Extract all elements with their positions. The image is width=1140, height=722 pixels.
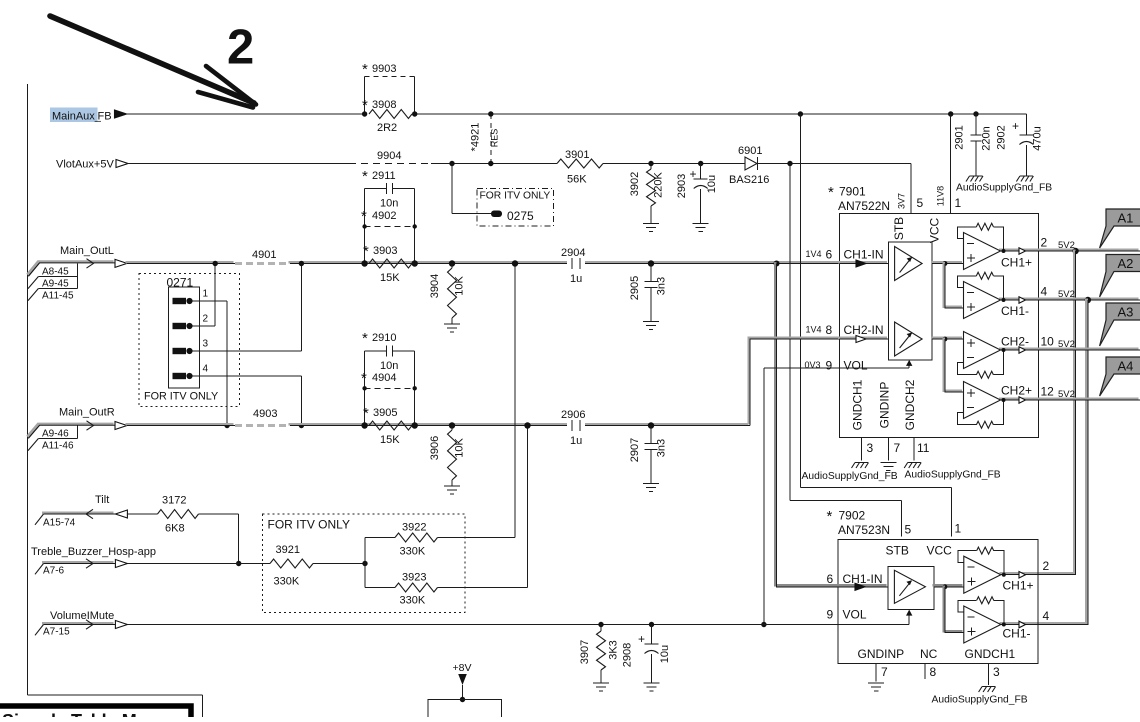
- svg-text:A9-46: A9-46: [42, 429, 69, 440]
- resistor R3907 3K3: [579, 622, 620, 683]
- svg-text:*: *: [827, 508, 833, 525]
- wire VolumeIMute to 7901 VOL: [761, 368, 839, 627]
- svg-text:NC: NC: [920, 647, 938, 661]
- capacitor C2902 470u (electrolytic): [996, 114, 1044, 176]
- block box (bottom, clipped): [428, 700, 502, 722]
- arrow Main_OutL: [115, 259, 127, 267]
- svg-text:3906: 3906: [429, 436, 441, 460]
- wire 7901 CH1+ output pin 2: [1001, 236, 1075, 270]
- op-amp U7901 output amp CH1-: [958, 272, 1006, 318]
- svg-text:10n: 10n: [380, 360, 398, 372]
- wire 0271 pin2 to Main_OutL: [199, 261, 218, 326]
- ground (2903): [693, 224, 709, 232]
- svg-text:*: *: [363, 243, 369, 260]
- svg-text:8: 8: [930, 665, 937, 679]
- svg-text:Tilt: Tilt: [95, 494, 109, 506]
- svg-text:4901: 4901: [252, 249, 276, 261]
- svg-text:*: *: [361, 370, 367, 387]
- jumper 0275 (FOR ITV ONLY box): [477, 189, 554, 227]
- svg-text:FOR ITV ONLY: FOR ITV ONLY: [268, 518, 350, 532]
- svg-text:8: 8: [826, 323, 833, 337]
- svg-text:STB: STB: [892, 217, 906, 240]
- svg-text:MainAux_: MainAux_: [52, 111, 102, 123]
- svg-text:4904: 4904: [372, 372, 396, 384]
- svg-text:A9-45: A9-45: [42, 279, 69, 290]
- resistor R3905 15K: [361, 405, 418, 446]
- svg-text:2904: 2904: [561, 247, 585, 259]
- svg-text:2903: 2903: [676, 174, 688, 198]
- wire VolumeIMute stub: [42, 622, 114, 625]
- svg-text:RES: RES: [490, 129, 500, 148]
- IC 7902 pin 6 CH1-IN: [827, 572, 888, 590]
- resistor R3923 330K: [365, 564, 528, 607]
- svg-text:A2: A2: [1118, 256, 1134, 271]
- svg-text:AudioSupplyGnd_FB: AudioSupplyGnd_FB: [956, 183, 1052, 194]
- svg-text:9: 9: [826, 359, 833, 373]
- svg-text:6: 6: [826, 248, 833, 262]
- svg-text:VCC: VCC: [928, 218, 942, 244]
- resistor R3172 6K8: [158, 495, 199, 535]
- ground AudioSupplyGnd_FB (2902): [1016, 176, 1033, 182]
- IC 7901 preamp CH1: [895, 247, 923, 281]
- ground AudioSupplyGnd_FB (7901 GNDCH2): [904, 463, 1001, 481]
- svg-text:5V2: 5V2: [1058, 389, 1075, 400]
- svg-text:+8V: +8V: [453, 662, 472, 674]
- svg-text:1: 1: [955, 196, 962, 210]
- svg-text:*: *: [828, 184, 834, 201]
- svg-text:5V2: 5V2: [1058, 240, 1075, 251]
- tag A1: [1100, 209, 1140, 248]
- arrow Main_OutR: [115, 422, 127, 430]
- chevron Main_OutL: [87, 259, 94, 268]
- svg-text:3923: 3923: [402, 572, 426, 584]
- svg-text:10u: 10u: [659, 645, 671, 663]
- svg-text:7: 7: [894, 441, 901, 455]
- signals table box (clipped): [0, 706, 191, 722]
- svg-text:CH2+: CH2+: [1001, 384, 1032, 398]
- svg-text:A4: A4: [1118, 359, 1134, 374]
- svg-text:2: 2: [1041, 236, 1048, 250]
- IC 7902 preamp block box: [888, 567, 934, 610]
- svg-text:VolumeIMute: VolumeIMute: [50, 610, 114, 622]
- svg-text:*: *: [362, 330, 368, 347]
- IC 7902 GNDCH1 pin 3: [965, 647, 1016, 685]
- IC 7902 preamp CH1: [894, 570, 925, 603]
- svg-text:2901: 2901: [954, 125, 966, 149]
- connector 0271 pin 2 plug: [173, 323, 200, 329]
- resistor R3902 220K: [629, 161, 665, 224]
- wire 3923 to Main_OutR: [524, 422, 530, 587]
- IC 7901 GNDCH1 pin 3: [851, 379, 874, 460]
- svg-text:9903: 9903: [372, 63, 396, 75]
- power +8V: [453, 662, 472, 702]
- svg-text:3903: 3903: [373, 245, 397, 257]
- resistor R3906 10K: [429, 422, 466, 486]
- chevron Main_OutR: [87, 421, 94, 430]
- svg-text:220n: 220n: [981, 126, 993, 150]
- jumper 4903 (dashed, not fitted): [235, 408, 290, 426]
- chevron Treble: [86, 559, 93, 568]
- connector 0271 pin 4 plug: [173, 373, 200, 379]
- svg-text:2: 2: [227, 21, 254, 75]
- svg-text:3921: 3921: [276, 544, 300, 556]
- ground (2908): [644, 683, 660, 691]
- svg-text:1: 1: [955, 522, 962, 536]
- resistor R9903 (alt, dashed box): [362, 61, 415, 114]
- capacitor C2903 10u (electrolytic): [676, 161, 718, 224]
- wire Tilt stub: [42, 511, 114, 514]
- svg-text:56K: 56K: [567, 174, 587, 186]
- svg-text:5: 5: [905, 523, 912, 537]
- svg-text:2R2: 2R2: [377, 122, 397, 134]
- wire 7901 preamp2 out: [931, 337, 964, 392]
- node MainAux_FB entry arrow: [115, 110, 127, 118]
- chevron Tilt: [86, 509, 93, 518]
- wire Main_OutR to 7901 CH2-IN: [749, 338, 838, 425]
- tag A2: [1100, 255, 1140, 298]
- svg-text:VCC: VCC: [927, 544, 953, 558]
- svg-text:CH1-IN: CH1-IN: [843, 572, 883, 586]
- svg-text:4: 4: [203, 364, 209, 375]
- wire 0271 pin1 to Main_OutR: [199, 301, 230, 428]
- svg-text:A8-45: A8-45: [42, 267, 69, 278]
- IC 7901 GNDCH2 pin 11: [903, 379, 930, 460]
- op-amp U7902 output amp CH1+: [958, 547, 1006, 593]
- wire MainAux_FB rail: [127, 113, 1027, 115]
- svg-text:1V4: 1V4: [806, 325, 822, 335]
- svg-text:7: 7: [881, 665, 888, 679]
- svg-text:3n3: 3n3: [656, 439, 668, 457]
- svg-text:3904: 3904: [429, 274, 441, 298]
- svg-text:220K: 220K: [653, 171, 665, 197]
- jumper 4901 (dashed, not fitted): [235, 249, 290, 264]
- svg-text:3905: 3905: [373, 407, 397, 419]
- svg-text:2906: 2906: [561, 409, 585, 421]
- wire STB net to 7902 pin5: [790, 164, 902, 537]
- svg-text:CH2-: CH2-: [1001, 335, 1029, 349]
- arrow Treble: [115, 560, 127, 568]
- IC 7901 pin 5 label: [897, 193, 924, 210]
- svg-text:2: 2: [1043, 559, 1050, 573]
- svg-text:VlotAux+5V: VlotAux+5V: [56, 159, 114, 171]
- ground AudioSupplyGnd_FB (2901): [966, 176, 983, 182]
- wire Main_OutR bus: [126, 424, 750, 425]
- IC 7901 preamp block box: [888, 242, 932, 360]
- svg-text:AudioSupplyGnd_FB: AudioSupplyGnd_FB: [932, 695, 1028, 706]
- svg-text:STB: STB: [886, 544, 909, 558]
- svg-text:A11-46: A11-46: [42, 440, 74, 451]
- op-amp U7902 output amp CH1-: [958, 597, 1006, 643]
- connector 0271 pin 1 plug: [173, 298, 200, 304]
- svg-text:CH1+: CH1+: [1001, 256, 1032, 270]
- svg-text:1: 1: [203, 289, 209, 300]
- ground AudioSupplyGnd_FB (7901 GNDCH1): [802, 463, 898, 482]
- svg-text:3908: 3908: [372, 99, 396, 111]
- node VlotAux+5V entry arrow: [116, 160, 128, 168]
- svg-text:2902: 2902: [996, 125, 1008, 149]
- IC 7901 preamp CH2: [895, 322, 923, 356]
- tag A7-15: [35, 625, 70, 638]
- svg-text:3n3: 3n3: [656, 277, 668, 295]
- wire 3921 to split node: [313, 561, 368, 566]
- IC 7901 pin 6 CH1-IN: [806, 248, 889, 268]
- tag A15-74: [35, 514, 76, 529]
- svg-text:12: 12: [1041, 385, 1055, 399]
- svg-text:1u: 1u: [570, 273, 582, 285]
- svg-text:3901: 3901: [565, 149, 589, 161]
- svg-text:Signals Table Ma: Signals Table Ma: [2, 711, 148, 717]
- svg-text:5: 5: [917, 196, 924, 210]
- svg-text:3902: 3902: [629, 172, 641, 196]
- svg-text:FOR ITV ONLY: FOR ITV ONLY: [144, 391, 218, 403]
- svg-text:3907: 3907: [579, 640, 591, 664]
- wire VlotAux+5V: [127, 163, 558, 165]
- svg-text:GNDINP: GNDINP: [858, 647, 905, 661]
- wire Treble stub: [42, 561, 114, 564]
- svg-text:10: 10: [1041, 335, 1055, 349]
- wire 3901 to diode: [603, 163, 745, 165]
- svg-text:4: 4: [1043, 609, 1050, 623]
- wire output A1 net: [999, 248, 1140, 575]
- op-amp U7901 AN7522N box: [828, 184, 1039, 438]
- svg-text:GNDCH2: GNDCH2: [903, 379, 917, 430]
- svg-text:6901: 6901: [738, 145, 762, 157]
- tag A3: [1100, 303, 1140, 346]
- wire Main_OutL bus: [126, 262, 840, 263]
- svg-text:0275: 0275: [507, 209, 534, 223]
- svg-text:9904: 9904: [377, 150, 401, 162]
- connector 0271 pin 3 plug: [173, 348, 200, 354]
- wire 7902 CH1+ output pin 2: [1003, 559, 1050, 592]
- ground (3906): [444, 486, 460, 494]
- svg-text:15K: 15K: [380, 272, 400, 284]
- wire VlotAux to 0275: [449, 161, 491, 214]
- ground (7901 GNDINP): [880, 463, 896, 471]
- svg-text:7902: 7902: [839, 509, 866, 523]
- svg-text:11V8: 11V8: [936, 186, 946, 206]
- wire 7902 preamp out: [933, 584, 964, 632]
- svg-text:470u: 470u: [1032, 126, 1044, 150]
- svg-text:4902: 4902: [372, 210, 396, 222]
- capacitor C2908 10u (electrolytic): [622, 622, 672, 683]
- svg-text:6: 6: [827, 572, 834, 586]
- wire 7901 preamp1 out: [931, 261, 964, 308]
- wire Main_OutL bus entry: [27, 262, 113, 275]
- svg-text:4903: 4903: [253, 408, 277, 420]
- svg-text:A15-74: A15-74: [43, 518, 76, 529]
- svg-text:9: 9: [827, 608, 834, 622]
- svg-text:10u: 10u: [706, 175, 718, 193]
- svg-text:A3: A3: [1118, 305, 1134, 320]
- svg-text:CH1-IN: CH1-IN: [844, 248, 884, 262]
- diode D6901 BAS216: [729, 145, 769, 186]
- ground (3902): [643, 224, 659, 232]
- svg-text:2: 2: [203, 314, 209, 325]
- svg-text:330K: 330K: [400, 546, 426, 558]
- tag A7-6: [35, 564, 65, 577]
- wire 0271 pin3 to Main_OutL: [199, 261, 304, 351]
- wire Treble to 3921: [127, 563, 270, 565]
- svg-text:10n: 10n: [380, 198, 398, 210]
- svg-text:VOL: VOL: [843, 608, 867, 622]
- IC 7902 NC pin 8: [920, 647, 938, 679]
- svg-text:1u: 1u: [570, 435, 582, 447]
- wire Main_OutL to 7902 CH1-IN: [774, 261, 839, 587]
- svg-text:A7-15: A7-15: [43, 626, 70, 637]
- svg-text:2907: 2907: [629, 438, 641, 462]
- svg-text:*: *: [362, 61, 368, 78]
- wire diode to STB (7901 pin5): [758, 161, 911, 214]
- capacitor C2905 3n3: [629, 260, 668, 321]
- op-amp U7901 output amp CH2+: [958, 382, 1006, 429]
- svg-text:CH2-IN: CH2-IN: [844, 323, 884, 337]
- svg-text:+: +: [1012, 119, 1019, 133]
- svg-text:FB: FB: [98, 111, 112, 123]
- svg-text:3: 3: [867, 441, 874, 455]
- svg-text:AN7523N: AN7523N: [838, 523, 890, 537]
- capacitor C2907 3n3: [629, 422, 668, 483]
- tag A9-46 / A11-46: [28, 425, 78, 451]
- IC 7902 pin 9 VOL: [827, 608, 913, 625]
- IC 7901 pin 1 wire: [936, 111, 962, 213]
- svg-text:AudioSupplyGnd_FB: AudioSupplyGnd_FB: [802, 471, 898, 482]
- svg-text:15K: 15K: [380, 434, 400, 446]
- wire 7901 CH2- output pin 10: [1001, 335, 1075, 354]
- svg-text:*: *: [363, 405, 369, 422]
- svg-text:10K: 10K: [454, 438, 466, 458]
- svg-text:3K3: 3K3: [608, 640, 620, 660]
- wire Tilt to 3172: [127, 513, 157, 515]
- tag A8-45 / A9-45 / A11-45: [28, 263, 78, 301]
- svg-text:A7-6: A7-6: [43, 565, 65, 576]
- box FOR ITV ONLY (3922/3923): [263, 514, 466, 613]
- svg-text:10K: 10K: [454, 276, 466, 296]
- tag A4: [1100, 357, 1140, 396]
- capacitor C2906 1u: [561, 409, 585, 447]
- op-amp U7902 AN7523N box: [827, 508, 1039, 664]
- svg-text:5V2: 5V2: [1058, 339, 1075, 350]
- svg-text:+: +: [638, 632, 645, 646]
- svg-text:*4921: *4921: [470, 123, 482, 152]
- ground (3907): [593, 683, 609, 691]
- svg-text:Main_OutL: Main_OutL: [60, 245, 114, 257]
- chevron VolumeIMute: [86, 620, 93, 629]
- svg-text:Main_OutR: Main_OutR: [59, 407, 115, 419]
- resistor R3921 330K: [270, 544, 313, 588]
- svg-text:6K8: 6K8: [165, 523, 185, 535]
- resistor R3901 56K: [557, 149, 603, 186]
- svg-text:7901: 7901: [839, 185, 866, 199]
- svg-text:A1: A1: [1118, 211, 1134, 226]
- svg-text:2905: 2905: [629, 276, 641, 300]
- resistor R3922 330K: [365, 522, 515, 564]
- svg-text:3: 3: [993, 665, 1000, 679]
- svg-text:*: *: [361, 208, 367, 225]
- svg-text:A11-45: A11-45: [42, 290, 74, 301]
- capacitor C2901 220n: [954, 111, 993, 176]
- svg-text:330K: 330K: [274, 576, 300, 588]
- svg-text:AudioSupplyGnd_FB: AudioSupplyGnd_FB: [905, 470, 1001, 481]
- svg-text:5V2: 5V2: [1058, 289, 1075, 300]
- IC 7902 GNDINP pin 7: [858, 647, 905, 682]
- ground (3904): [444, 324, 460, 332]
- resistor R3908 2R2: [362, 97, 418, 134]
- svg-text:3922: 3922: [402, 522, 426, 534]
- svg-text:CH1-: CH1-: [1001, 304, 1029, 318]
- svg-text:0V3: 0V3: [805, 360, 821, 370]
- svg-text:1V4: 1V4: [806, 249, 822, 259]
- svg-text:CH1+: CH1+: [1003, 579, 1034, 593]
- capacitor C2904 1u: [561, 247, 585, 285]
- svg-text:2911: 2911: [372, 170, 396, 182]
- svg-text:2908: 2908: [622, 643, 634, 667]
- svg-text:CH1-: CH1-: [1003, 627, 1031, 641]
- svg-text:AN7522N: AN7522N: [838, 199, 890, 213]
- node MainAux_FB label (highlighted): [50, 108, 112, 123]
- wire VolumeIMute: [127, 624, 838, 626]
- resistor R4921 (alt, dashed): [470, 111, 500, 166]
- wire output A2 net: [999, 297, 1140, 625]
- arrow VolumeIMute: [115, 621, 127, 629]
- ground (2907): [643, 484, 659, 492]
- wire 7901 CH2+ output pin 12: [1001, 384, 1075, 404]
- svg-text:GNDINP: GNDINP: [877, 382, 891, 429]
- svg-text:*: *: [362, 168, 368, 185]
- svg-text:3V7: 3V7: [897, 193, 907, 209]
- wire MainAux to 7902 VCC: [798, 111, 952, 536]
- ground (2905): [643, 322, 659, 330]
- op-amp U7901 output amp CH2-: [958, 332, 1006, 379]
- op-amp U7901 output amp CH1+: [958, 223, 1006, 269]
- capacitor C2910 10n with alt 4904: [361, 330, 417, 426]
- svg-text:11: 11: [917, 441, 930, 455]
- wire 3922 to Main_OutL: [512, 260, 518, 537]
- svg-text:BAS216: BAS216: [729, 174, 769, 186]
- resistor R3903 15K: [361, 243, 418, 284]
- wire Main_OutR bus entry: [27, 424, 113, 437]
- svg-text:VOL: VOL: [844, 359, 868, 373]
- ground (7902 GNDINP): [868, 683, 884, 691]
- wire 3172 to treble node: [199, 514, 242, 566]
- wire 0271 pin4 to Main_OutR: [199, 376, 304, 428]
- left frame rail wire: [28, 84, 203, 717]
- wire 7902 CH1- output pin 4: [1003, 609, 1050, 641]
- connector 0271 (FOR ITV ONLY): [139, 274, 240, 407]
- svg-text:Treble_Buzzer_Hosp-app: Treble_Buzzer_Hosp-app: [31, 546, 156, 558]
- IC 7901 GNDINP pin 7: [877, 382, 900, 461]
- arrow Tilt: [115, 510, 127, 518]
- IC 7901 pin 8 CH2-IN: [806, 323, 889, 343]
- svg-text:4: 4: [1041, 285, 1048, 299]
- svg-text:GNDCH1: GNDCH1: [965, 647, 1016, 661]
- ground AudioSupplyGnd_FB (7902 GNDCH1): [932, 687, 1028, 706]
- svg-text:FOR ITV ONLY: FOR ITV ONLY: [480, 191, 551, 202]
- wire output A4 net: [999, 397, 1139, 400]
- resistor R9904 (alt, dashed): [349, 150, 431, 164]
- resistor R3904 10K: [429, 260, 466, 324]
- IC 7901 pin 9 VOL: [805, 359, 913, 373]
- capacitor C2911 10n with alt 4902: [361, 168, 417, 264]
- wire output A3 net: [999, 347, 1139, 350]
- svg-text:3: 3: [203, 339, 209, 350]
- svg-text:GNDCH1: GNDCH1: [851, 379, 865, 430]
- wire 7901 CH1- output pin 4: [1001, 285, 1075, 319]
- svg-text:330K: 330K: [400, 595, 426, 607]
- svg-text:3172: 3172: [162, 495, 186, 507]
- annotation arrow (red-line callout 2): [50, 16, 256, 108]
- svg-text:2910: 2910: [372, 332, 396, 344]
